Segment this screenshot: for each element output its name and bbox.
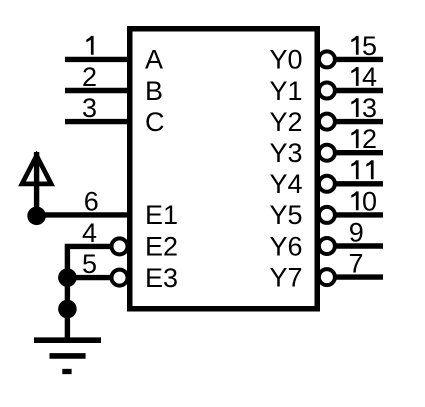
svg-text:2: 2 [362,124,377,154]
wire pin 3 (C input) [65,119,132,124]
junction dot E3/ground rail [58,268,77,287]
inverter bubble E3 [112,270,128,286]
svg-text:E1: E1 [145,200,178,230]
svg-text:5: 5 [362,31,377,61]
pin number 15 [351,31,377,61]
svg-text:Y5: Y5 [270,200,303,230]
svg-text:4: 4 [82,218,97,248]
pin number 12 [351,124,377,154]
inverter bubble Y3 [319,145,335,161]
svg-text:5: 5 [82,249,97,279]
wire pin 5 (E3 input) [67,275,111,280]
svg-text:Y6: Y6 [270,231,303,261]
IC body U1 (3-to-8 decoder) [130,29,318,309]
svg-text:Y7: Y7 [270,262,303,292]
wire pin 7 (Y7 output) [336,274,383,279]
svg-text:E3: E3 [145,263,178,293]
svg-text:0: 0 [362,186,377,216]
junction dot on ground rail [58,300,77,319]
svg-text:A: A [145,45,163,75]
VCC power symbol (up arrow) [22,152,51,215]
svg-text:9: 9 [349,217,364,247]
inverter bubble Y4 [319,176,335,192]
pin number 1 [86,36,93,55]
wire pin 15 (Y0 output) [336,57,383,62]
junction dot at VCC / E1 wire [27,207,46,226]
wire pin 2 (B input) [65,88,132,93]
svg-text:C: C [145,107,165,137]
svg-text:2: 2 [82,62,97,92]
svg-text:E2: E2 [145,232,178,262]
svg-text:Y4: Y4 [270,169,303,199]
pin number 10 [351,186,377,216]
wire pin 10 (Y5 output) [336,212,383,217]
wire pin 13 (Y2 output) [336,119,383,124]
svg-text:B: B [145,76,163,106]
wire pin 11 (Y4 output) [336,181,383,186]
wire pin 12 (Y3 output) [336,150,383,155]
svg-text:6: 6 [84,186,99,216]
svg-text:Y3: Y3 [270,138,303,168]
wire pin 1 (A input) [65,57,132,62]
inverter bubble Y7 [319,269,335,285]
svg-text:Y1: Y1 [270,76,303,106]
svg-text:3: 3 [362,93,377,123]
inverter bubble Y2 [319,114,335,130]
svg-text:7: 7 [349,249,364,279]
svg-text:3: 3 [82,93,97,123]
inverter bubble Y6 [319,238,335,254]
inverter bubble Y5 [319,207,335,223]
inverter bubble E2 [112,238,128,254]
wire pin 4 (E2 input, elbow down to ground rail) [67,246,111,340]
wire pin 9 (Y6 output) [336,243,383,248]
inverter bubble Y1 [319,83,335,99]
wire pin 14 (Y1 output) [336,88,383,93]
pin number 14 [351,62,377,92]
ground symbol [34,340,101,371]
svg-text:4: 4 [362,62,377,92]
wire pin 6 (E1 input) [37,212,132,217]
pin number 13 [351,93,377,123]
pin number 11 [351,160,373,179]
svg-text:Y0: Y0 [270,45,303,75]
inverter bubble Y0 [319,51,335,67]
svg-text:Y2: Y2 [270,107,303,137]
